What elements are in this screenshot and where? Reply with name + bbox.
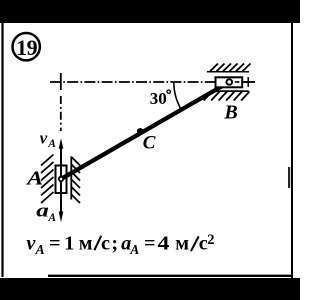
- svg-text:30: 30: [150, 89, 167, 108]
- svg-text:a: a: [36, 199, 49, 220]
- svg-text:2: 2: [207, 232, 214, 248]
- svg-text:A: A: [129, 242, 139, 257]
- svg-text:A: A: [25, 168, 43, 190]
- svg-text:B: B: [223, 101, 237, 123]
- svg-text:;: ;: [111, 233, 118, 255]
- svg-text:4: 4: [158, 231, 170, 254]
- svg-text:с: с: [101, 233, 110, 255]
- svg-text:=: =: [49, 233, 61, 255]
- svg-text:A: A: [47, 212, 56, 224]
- svg-text:A: A: [47, 138, 56, 150]
- svg-text:A: A: [35, 242, 45, 257]
- svg-text:м: м: [79, 233, 93, 255]
- svg-text:=: =: [144, 233, 156, 255]
- svg-text:м: м: [175, 233, 189, 255]
- svg-text:C: C: [143, 133, 156, 154]
- svg-text:19: 19: [16, 35, 38, 60]
- svg-text:1: 1: [64, 233, 74, 255]
- svg-text:v: v: [40, 128, 48, 147]
